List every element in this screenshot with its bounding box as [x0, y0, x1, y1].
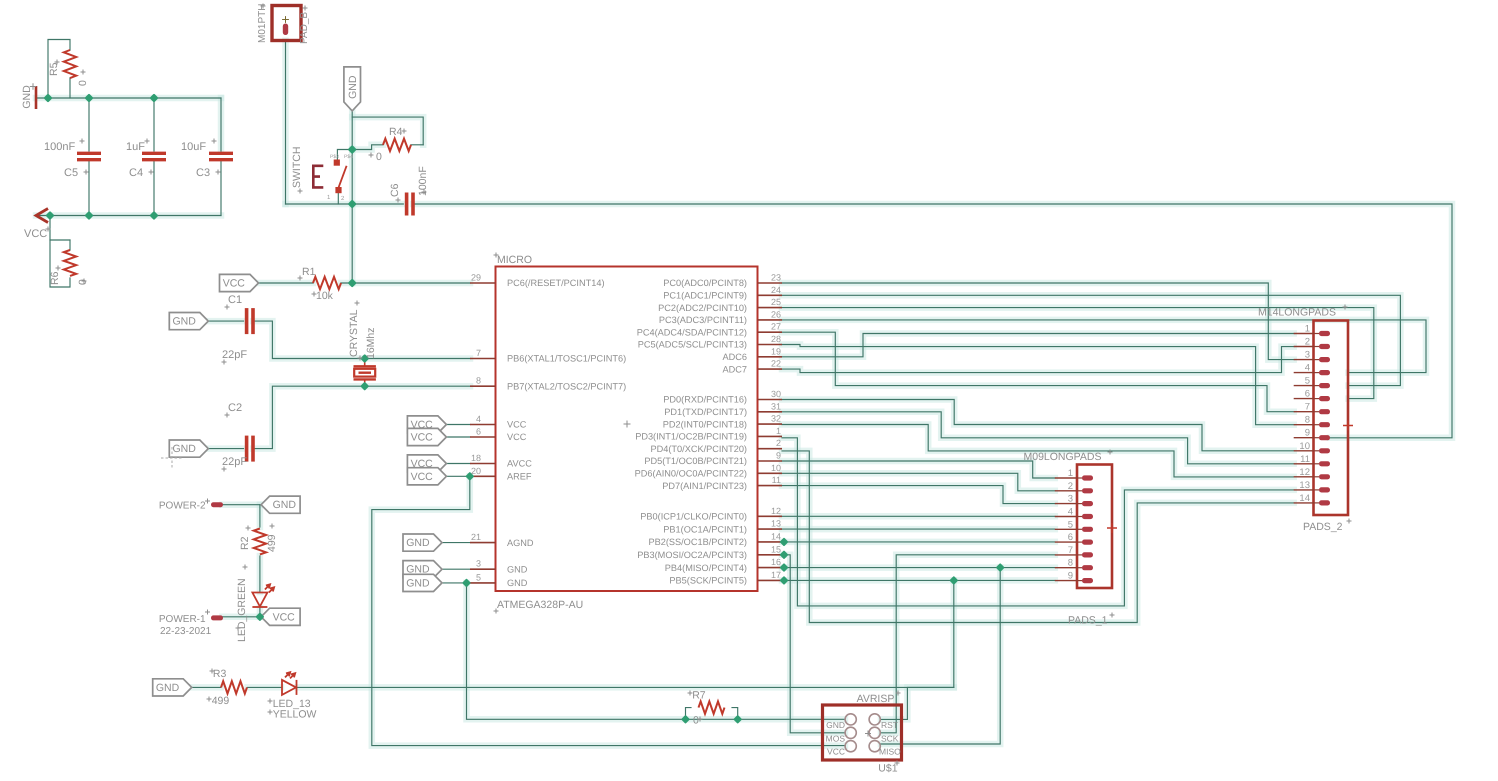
junction bottom rail x=154 [149, 211, 158, 220]
svg-text:8: 8 [476, 376, 481, 386]
svg-text:PC5(ADC5/SCL/PCINT13): PC5(ADC5/SCL/PCINT13) [638, 340, 747, 350]
svg-text:2: 2 [1305, 337, 1310, 348]
svg-text:GND: GND [273, 499, 297, 511]
supply flag VCC AVCC [407, 455, 446, 472]
svg-text:VCC: VCC [411, 432, 434, 444]
svg-text:13: 13 [1299, 480, 1310, 491]
svg-text:10: 10 [771, 463, 781, 473]
ground symbol top-left [35, 86, 38, 109]
AVRISP pin GND [845, 714, 856, 725]
wire VCC to AREF [446, 475, 470, 477]
svg-text:R7: R7 [692, 690, 706, 702]
junction R7 right [733, 715, 742, 724]
pin 24 PC1(ADC1/PCINT9) stub [758, 294, 783, 296]
resistor R2 [254, 529, 266, 555]
net PD5 to PADS_1 pin1 [782, 461, 1055, 478]
M09 pin 2 stub [1055, 490, 1077, 492]
svg-text:9: 9 [1068, 571, 1073, 582]
pin 31 PD1(TXD/PCINT17) stub [758, 411, 783, 413]
pin 32 PD2(INT0/PCINT18) stub [758, 423, 783, 425]
junction reset at R1 [348, 278, 357, 287]
svg-text:0: 0 [693, 715, 699, 727]
M14 pad 7 [1314, 411, 1320, 413]
svg-text:21: 21 [471, 532, 481, 542]
capacitor C6 (100nF) [407, 193, 413, 216]
svg-text:PADS_2: PADS_2 [1303, 521, 1343, 533]
AVRISP pin VCC [845, 741, 856, 752]
sheet origin marker [161, 447, 183, 469]
wire R6 top [50, 239, 70, 241]
net PD6 to PADS_1 pin2 [782, 473, 1055, 491]
supply flag VCC pin6 [407, 428, 446, 445]
svg-text:PD5(T1/OC0B/PCINT21): PD5(T1/OC0B/PCINT21) [644, 456, 747, 466]
resistor R6 [64, 250, 76, 276]
svg-text:23: 23 [771, 273, 781, 283]
pin 9 PD5(T1/OC0B/PCINT21) stub [758, 460, 783, 462]
supply flag VCC at R1 [220, 274, 259, 291]
M14 pad 3 [1314, 359, 1320, 361]
junction PB stub y=567.6 [779, 563, 788, 572]
wire reset rail left of C6 [286, 203, 404, 205]
M09 pin 7 stub [1055, 554, 1077, 556]
svg-text:R4: R4 [389, 126, 403, 138]
svg-text:20: 20 [471, 466, 481, 476]
svg-text:6: 6 [476, 427, 481, 437]
wire GND to AGND [442, 542, 470, 544]
M09 pad 3 [1077, 503, 1082, 505]
svg-text:26: 26 [771, 309, 781, 319]
svg-text:2: 2 [776, 438, 781, 448]
pin 23 PC0(ADC0/PCINT8) stub [758, 282, 783, 284]
svg-text:SWITCH: SWITCH [291, 147, 303, 188]
svg-text:AREF: AREF [507, 472, 532, 482]
connector M14LONGPADS frame [1314, 321, 1349, 516]
svg-text:3: 3 [476, 559, 481, 569]
svg-text:31: 31 [771, 401, 781, 411]
svg-text:12: 12 [1299, 467, 1310, 478]
junction switch top node [348, 145, 357, 154]
M09 pad 2 [1077, 490, 1082, 492]
svg-text:C5: C5 [64, 167, 78, 179]
svg-text:7: 7 [1305, 402, 1310, 413]
svg-text:22-23-2021: 22-23-2021 [160, 626, 212, 637]
svg-text:4: 4 [1068, 507, 1073, 518]
junction MISO net [996, 563, 1005, 572]
connector M01PTH pad frame [272, 6, 301, 41]
pin 6 VCC stub [470, 436, 496, 438]
svg-text:499: 499 [212, 695, 230, 707]
svg-text:100nF: 100nF [44, 141, 75, 153]
net PC4 to PADS_2 pin7 [782, 332, 1294, 412]
M14 pad 13 [1314, 489, 1320, 491]
svg-text:15: 15 [771, 544, 781, 554]
capacitor C3 (10uF) [209, 153, 233, 159]
svg-text:M09LONGPADS: M09LONGPADS [1024, 451, 1102, 463]
svg-text:3: 3 [1305, 350, 1310, 361]
svg-text:8: 8 [1305, 415, 1310, 426]
svg-text:ATMEGA328P-AU: ATMEGA328P-AU [497, 599, 583, 611]
svg-text:10k: 10k [316, 290, 334, 302]
net PD1 to PADS_2 pin11 [782, 412, 1294, 464]
svg-text:4: 4 [476, 414, 481, 424]
M14 pin 9 stub [1294, 437, 1314, 439]
wire C2 to XTAL2 [253, 386, 470, 448]
LED LED_GREEN [252, 584, 274, 607]
pin 22 ADC7 stub [758, 368, 783, 370]
wire R7 left lead [686, 708, 692, 720]
pad POWER-1 [211, 615, 223, 620]
svg-text:R6: R6 [49, 271, 61, 285]
wire to R2 top [259, 505, 261, 527]
svg-text:VCC: VCC [827, 747, 845, 757]
wire R6 top lead [69, 240, 71, 250]
net ADC7 to PADS_2 pin2 [782, 347, 1294, 373]
net PD3 to PADS_2 pin13 [782, 438, 1294, 606]
pin 30 PD0(RXD/PCINT16) stub [758, 399, 783, 401]
pin 13 PB1(OC1A/PCINT1) stub [758, 528, 783, 530]
wire C5 bottom lead [88, 160, 90, 216]
svg-text:PC1(ADC1/PCINT9): PC1(ADC1/PCINT9) [663, 291, 747, 301]
net PC1 to PADS_2 pin5 right side [782, 295, 1400, 385]
junction reset rail at switch column [348, 199, 357, 208]
svg-text:PD4(T0/XCK/PCINT20): PD4(T0/XCK/PCINT20) [651, 444, 748, 454]
supply flag VCC POWER-1 [261, 608, 300, 625]
svg-text:3: 3 [1068, 494, 1073, 505]
M14 pin 7 stub [1294, 411, 1314, 413]
svg-text:R2: R2 [239, 536, 251, 550]
svg-text:AVRISP: AVRISP [857, 693, 895, 705]
pin 28 PC5(ADC5/SCL/PCINT13) stub [758, 344, 783, 346]
wire POWER-2 to GND flag [223, 504, 262, 506]
svg-text:ADC7: ADC7 [722, 364, 747, 374]
M14 pad 5 [1314, 385, 1320, 387]
net PC3 to PADS_2 pin4 right side [782, 320, 1426, 373]
net PADS_1 pin7 to AVRISP SCK [881, 555, 1055, 733]
svg-text:LED_GREEN: LED_GREEN [236, 578, 248, 642]
M14 pin 11 stub [1294, 463, 1314, 465]
svg-text:PB2(SS/OC1B/PCINT2): PB2(SS/OC1B/PCINT2) [648, 537, 747, 547]
wire GND to R3 [192, 686, 221, 688]
capacitor C4 (1uF) [142, 153, 166, 159]
supply flag GND at C1 [169, 313, 208, 330]
svg-text:VCC: VCC [223, 278, 246, 290]
wire VCC bottom rail [36, 215, 221, 217]
svg-text:R5: R5 [48, 62, 60, 76]
svg-text:VCC: VCC [411, 419, 434, 431]
svg-text:GND: GND [156, 682, 180, 694]
svg-text:PD6(AIN0/OC0A/PCINT22): PD6(AIN0/OC0A/PCINT22) [635, 469, 747, 479]
svg-text:PD0(RXD/PCINT16): PD0(RXD/PCINT16) [663, 395, 747, 405]
M09 pad 5 [1077, 528, 1082, 530]
M14 pad 11 [1314, 463, 1320, 465]
svg-text:PC4(ADC4/SDA/PCINT12): PC4(ADC4/SDA/PCINT12) [637, 327, 747, 337]
M09 pin 3 stub [1055, 503, 1077, 505]
wire R5 loop top [48, 40, 70, 99]
svg-text:5: 5 [1068, 519, 1073, 530]
wire R5 bottom lead [69, 78, 71, 98]
M14 pin 1 stub [1294, 333, 1314, 335]
wire GND top rail [36, 97, 221, 99]
svg-text:5: 5 [476, 572, 481, 582]
svg-text:22pF: 22pF [222, 349, 247, 361]
M09 pin 9 stub [1055, 580, 1077, 582]
resistor R1 [313, 277, 341, 289]
wire LED_GREEN cathode [259, 608, 261, 617]
pin 21 AGND stub [470, 542, 496, 544]
wire R4 right lead [411, 144, 423, 146]
M14 origin tick [1343, 421, 1353, 431]
AVRISP pin MISO [869, 741, 880, 752]
connector AVRISP U$1 frame [823, 705, 902, 760]
M09 pin 8 stub [1055, 567, 1077, 569]
capacitor C2 (22pF) [247, 436, 253, 462]
svg-text:GND: GND [406, 564, 430, 576]
wire C6 to M14 pin 9 [413, 204, 1452, 438]
wire LED_13 net [298, 686, 954, 688]
supply flag GND at R3 [153, 679, 192, 696]
svg-text:GND: GND [826, 720, 845, 730]
wire R6 loop [50, 216, 70, 288]
svg-text:VCC: VCC [507, 420, 527, 430]
net PB4 to PADS_1 pin8 [782, 567, 1055, 569]
M09 pin 5 stub [1055, 528, 1077, 530]
svg-text:PC3(ADC3/PCINT11): PC3(ADC3/PCINT11) [659, 315, 747, 325]
wire C4 top lead [153, 98, 155, 151]
M01PTH pad [283, 24, 288, 36]
pin 17 PB5(SCK/PCINT5) stub [758, 579, 783, 581]
wire R1 to pin29 [341, 282, 470, 284]
svg-text:GND: GND [406, 537, 430, 549]
pin 19 ADC6 stub [758, 356, 783, 358]
M14 pad 8 [1314, 424, 1320, 426]
svg-text:PD2(INT0/PCINT18): PD2(INT0/PCINT18) [663, 419, 747, 429]
svg-text:0: 0 [77, 80, 89, 86]
svg-text:PD3(INT1/OC2B/PCINT19): PD3(INT1/OC2B/PCINT19) [635, 432, 747, 442]
pin 15 PB3(MOSI/OC2A/PCINT3) stub [758, 554, 783, 556]
net PC0 to PADS_2 pin3 [782, 283, 1294, 360]
M14 pad 4 [1314, 372, 1320, 374]
svg-text:VCC: VCC [24, 228, 47, 240]
net PB1 to PADS_1 pin5 [782, 528, 1055, 530]
wire C3 top branch [220, 98, 222, 151]
svg-text:19: 19 [771, 346, 781, 356]
capacitor C5 (100nF) [77, 153, 101, 159]
M14 pad 6 [1314, 398, 1320, 400]
wire reset vertical [351, 150, 353, 284]
svg-text:ADC6: ADC6 [722, 352, 747, 362]
wire node to R4 left [352, 145, 383, 150]
svg-text:1: 1 [776, 426, 781, 436]
svg-text:499: 499 [266, 534, 278, 552]
svg-text:0: 0 [376, 151, 382, 163]
wire GND net to R7 and AVRISP GND [467, 583, 846, 719]
wire VCC to AVCC [446, 463, 470, 465]
wire switch top pin [337, 150, 352, 163]
svg-text:PB1(OC1A/PCINT1): PB1(OC1A/PCINT1) [663, 524, 747, 534]
svg-text:RST: RST [881, 720, 898, 730]
net PD2 to PADS_2 pin12 [782, 425, 1294, 477]
pin 12 PB0(ICP1/CLKO/PCINT0) stub [758, 515, 783, 517]
svg-text:6: 6 [1305, 389, 1310, 400]
switch SWITCH [313, 166, 323, 188]
pin 5 GND stub [470, 582, 496, 584]
junction bottom rail x=89 [84, 211, 93, 220]
junction GND pin5 [462, 578, 471, 587]
M09 pin 6 stub [1055, 541, 1077, 543]
wire M01PTH to reset rail [285, 41, 287, 204]
junction PB stub y=554.8 [779, 550, 788, 559]
wire R4 loop right [352, 117, 423, 145]
svg-text:4: 4 [1305, 363, 1310, 374]
svg-text:0: 0 [77, 279, 89, 285]
supply flag GND POWER-2 [261, 496, 300, 513]
net PC5 to PADS_2 pin8 [782, 345, 1294, 425]
junction top rail x=154 [149, 93, 158, 102]
resistor R5 [64, 50, 76, 78]
pin 29 PC6(/RESET/PCINT14) stub [470, 282, 496, 284]
AVRISP pin MOS [845, 727, 856, 738]
wire C1 to XTAL1 [253, 321, 470, 358]
M09 pad 7 [1077, 554, 1082, 556]
pin 2 PD4(T0/XCK/PCINT20) stub [758, 448, 783, 450]
svg-text:10uF: 10uF [181, 141, 206, 153]
pin 8 PB7(XTAL2/TOSC2/PCINT7) stub [470, 385, 496, 387]
svg-text:POWER-2: POWER-2 [159, 501, 206, 512]
svg-text:C2: C2 [228, 402, 242, 414]
svg-text:PB0(ICP1/CLKO/PCINT0): PB0(ICP1/CLKO/PCINT0) [640, 512, 747, 522]
supply flag VCC pin4 [407, 416, 446, 433]
net PB0 to PADS_1 pin4 [782, 515, 1055, 517]
svg-text:U$1: U$1 [878, 763, 897, 775]
svg-text:10: 10 [1299, 441, 1310, 452]
supply flag VCC AREF [407, 468, 446, 485]
net PD7 to PADS_1 pin3 [782, 486, 1055, 504]
junction PB stub y=580.4 [779, 576, 788, 585]
wire POWER-1 to node [223, 616, 262, 618]
pin 27 PC4(ADC4/SDA/PCINT12) stub [758, 331, 783, 333]
svg-text:PC0(ADC0/PCINT8): PC0(ADC0/PCINT8) [663, 278, 747, 288]
pin 20 AREF stub [470, 475, 496, 477]
svg-text:12: 12 [771, 506, 781, 516]
svg-text:7: 7 [476, 348, 481, 358]
connector M09LONGPADS frame [1077, 465, 1112, 589]
wire R3 to LED_13 [248, 686, 281, 688]
wire switch bottom pin [337, 190, 339, 204]
svg-text:C6: C6 [389, 183, 401, 197]
svg-text:SCK: SCK [881, 733, 899, 743]
svg-text:2: 2 [1068, 481, 1073, 492]
supply flag GND above switch [344, 67, 361, 111]
pin 18 AVCC stub [470, 463, 496, 465]
M09 pin 1 stub [1055, 477, 1077, 479]
net PB5 to PADS_1 pin9 [782, 579, 1055, 581]
svg-text:AVCC: AVCC [507, 459, 532, 469]
svg-text:14: 14 [1299, 493, 1310, 504]
svg-text:7: 7 [1068, 545, 1073, 556]
IC MICRO ATMEGA328P-AU body [496, 267, 758, 592]
svg-text:PADS_1: PADS_1 [1068, 615, 1108, 627]
net SCK branch to AVRISP RST [881, 580, 954, 719]
net ADC6 to PADS_2 pin1 [782, 334, 1294, 357]
pin 11 PD7(AIN1/PCINT23) stub [758, 485, 783, 487]
M14 pad 14 [1314, 502, 1320, 504]
M14 pin 5 stub [1294, 385, 1314, 387]
M09 pin 4 stub [1055, 516, 1077, 518]
svg-text:R3: R3 [213, 668, 227, 680]
wire AREF/VCC to AVRISP VCC [372, 476, 845, 745]
pin 7 PB6(XTAL1/TOSC1/PCINT6) stub [470, 358, 496, 360]
svg-text:9: 9 [776, 451, 781, 461]
svg-text:17: 17 [771, 570, 781, 580]
svg-text:1: 1 [1305, 324, 1310, 335]
svg-text:28: 28 [771, 334, 781, 344]
svg-text:1: 1 [1068, 468, 1073, 479]
pin 14 PB2(SS/OC1B/PCINT2) stub [758, 541, 783, 543]
svg-text:PB5(SCK/PCINT5): PB5(SCK/PCINT5) [669, 576, 747, 586]
svg-text:MICRO: MICRO [497, 254, 532, 266]
svg-text:PC2(ADC2/PCINT10): PC2(ADC2/PCINT10) [658, 303, 747, 313]
svg-text:27: 27 [771, 322, 781, 332]
M14 pin 12 stub [1294, 476, 1314, 478]
pin 3 GND stub [470, 568, 496, 570]
wire GND to C2 [208, 448, 243, 450]
svg-text:PB7(XTAL2/TOSC2/PCINT7): PB7(XTAL2/TOSC2/PCINT7) [507, 381, 626, 391]
svg-text:VCC: VCC [507, 432, 527, 442]
svg-text:PB3(MOSI/OC2A/PCINT3): PB3(MOSI/OC2A/PCINT3) [637, 550, 747, 560]
svg-text:PC6(/RESET/PCINT14): PC6(/RESET/PCINT14) [507, 278, 605, 288]
M09 origin tick [1107, 523, 1117, 533]
pin 1 PD3(INT1/OC2B/PCINT19) stub [758, 435, 783, 437]
M09 pad 6 [1077, 541, 1082, 543]
supply flag GND at C2 [169, 440, 208, 457]
junction PB stub y=541.9 [779, 537, 788, 546]
pin 10 PD6(AIN0/OC0A/PCINT22) stub [758, 472, 783, 474]
net MISO to AVRISP [881, 568, 1000, 744]
switch lever and pins [335, 160, 347, 192]
M14 pad 12 [1314, 476, 1320, 478]
M14 pad 1 [1314, 333, 1320, 335]
resistor R7 [699, 701, 725, 713]
wire GND to pin5 [442, 582, 470, 584]
M14 pin 13 stub [1294, 489, 1314, 491]
M09 pad 9 [1077, 580, 1082, 582]
svg-text:1uF: 1uF [126, 141, 145, 153]
svg-text:GND: GND [507, 578, 528, 588]
svg-text:GND: GND [507, 564, 528, 574]
svg-text:13: 13 [771, 519, 781, 529]
svg-text:9: 9 [1305, 428, 1310, 439]
svg-text:C4: C4 [129, 167, 143, 179]
pad POWER-2 [211, 502, 223, 507]
svg-text:PAD_B: PAD_B [299, 12, 310, 44]
svg-text:PD7(AIN1/PCINT23): PD7(AIN1/PCINT23) [662, 481, 747, 491]
svg-text:VCC: VCC [411, 471, 434, 483]
wire VCC flag to R1 [259, 282, 314, 284]
svg-text:CRYSTAL: CRYSTAL [348, 309, 360, 357]
svg-text:30: 30 [771, 389, 781, 399]
svg-text:MISO: MISO [879, 747, 901, 757]
M14 pin 3 stub [1294, 359, 1314, 361]
svg-text:11: 11 [1300, 454, 1310, 465]
svg-text:PD1(TXD/PCINT17): PD1(TXD/PCINT17) [664, 407, 747, 417]
wire VCC to pin4 [446, 424, 470, 426]
svg-text:P$4: P$4 [344, 154, 353, 160]
svg-text:5: 5 [1305, 376, 1310, 387]
wire gnd-flag down to node [351, 111, 353, 150]
svg-text:GND: GND [173, 443, 197, 455]
wire R2 to LED_GREEN [259, 556, 261, 592]
svg-text:29: 29 [471, 273, 481, 283]
